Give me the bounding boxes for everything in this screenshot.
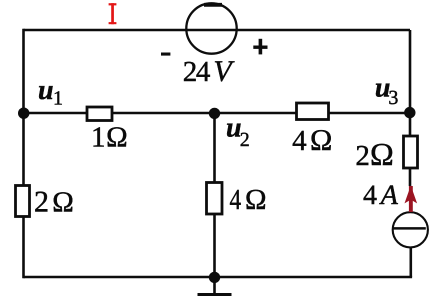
svg-text:u: u	[38, 75, 54, 106]
svg-text:3: 3	[388, 87, 398, 109]
svg-text:2: 2	[34, 186, 49, 219]
svg-text:Ω: Ω	[245, 184, 267, 216]
svg-text:Ω: Ω	[370, 136, 394, 172]
svg-text:Ω: Ω	[310, 124, 332, 157]
svg-text:2: 2	[355, 140, 370, 172]
svg-text:1: 1	[53, 88, 63, 110]
svg-text:2: 2	[240, 129, 250, 151]
svg-text:4: 4	[363, 180, 377, 211]
svg-text:Ω: Ω	[52, 187, 74, 219]
svg-text:4: 4	[196, 56, 211, 88]
svg-text:Ω: Ω	[106, 122, 128, 154]
svg-text:1: 1	[91, 122, 106, 154]
svg-text:4: 4	[230, 184, 242, 216]
svg-text:A: A	[379, 180, 399, 211]
svg-text:4: 4	[292, 125, 307, 157]
